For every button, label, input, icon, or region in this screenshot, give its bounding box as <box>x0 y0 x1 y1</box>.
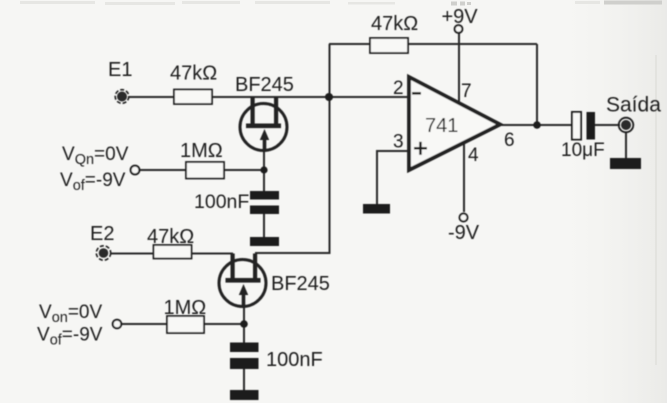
transistor Q2 BF245 <box>219 254 266 307</box>
+9V supply terminal <box>455 25 463 33</box>
control terminal Von/Vof (open circle) <box>113 320 122 329</box>
resistor R4 47kΩ <box>154 245 192 259</box>
output terminal Saída <box>619 118 634 133</box>
-9V supply terminal <box>460 214 468 222</box>
wire: C3 to output terminal <box>595 124 620 126</box>
node C junction dot (Q2 gate / R5 / C2) <box>240 320 248 328</box>
wire: node A to op-amp pin 2 <box>329 96 409 98</box>
ground below output terminal <box>610 158 641 169</box>
svg-text:2: 2 <box>393 78 404 99</box>
wire: R3 to gate node of Q1 <box>224 169 264 171</box>
wire: Von terminal to R5 <box>121 323 167 325</box>
svg-text:47kΩ: 47kΩ <box>371 13 418 35</box>
terminal E2 <box>96 246 110 260</box>
wire: R5 to gate node of Q2 <box>204 323 244 325</box>
wire: left vertical from top wire down to JFET2 source wire <box>255 44 330 253</box>
ground below C2 <box>230 390 259 400</box>
transistor Q1 BF245 <box>240 97 287 151</box>
wire: R1 to node A through JFET Q1 top <box>212 96 329 98</box>
op-amp U1 741 <box>409 77 500 170</box>
capacitor C1 100nF <box>250 191 279 214</box>
wire: feedback top horizontal <box>329 43 537 45</box>
svg-text:6: 6 <box>504 130 515 151</box>
resistor R2 47kΩ feedback <box>370 38 408 53</box>
svg-text:47kΩ: 47kΩ <box>147 226 194 248</box>
svg-text:-9V: -9V <box>448 222 480 244</box>
svg-text:47kΩ: 47kΩ <box>170 63 217 85</box>
svg-text:3: 3 <box>393 132 404 153</box>
svg-text:E1: E1 <box>108 59 132 81</box>
wire: C1 lower plate to ground <box>263 214 265 237</box>
wire: VQn terminal to R3 <box>139 169 186 171</box>
wire: E1 to R1 <box>128 96 174 98</box>
svg-text:1MΩ: 1MΩ <box>164 297 207 319</box>
ground below C1 <box>250 237 279 246</box>
faint cropped text remnants at top edge <box>20 1 600 5</box>
wire: +9V supply to op-amp pin 7 <box>458 33 460 104</box>
wire: C2 lower plate to ground <box>243 369 245 390</box>
svg-text:7: 7 <box>461 81 472 102</box>
svg-text:Vof=-9V: Vof=-9V <box>60 170 126 194</box>
capacitor C2 100nF <box>230 343 259 370</box>
wire: op-amp pin 3 to ground <box>377 151 409 204</box>
faint page edge line at right <box>655 55 657 365</box>
node D output junction dot <box>533 121 541 129</box>
resistor R3 1MΩ <box>186 162 224 179</box>
wire: feedback right vertical down to output node <box>536 44 538 125</box>
svg-text:VQn=0V: VQn=0V <box>62 144 129 168</box>
svg-text:4: 4 <box>468 145 479 166</box>
wire: output terminal to ground <box>625 132 627 158</box>
resistor R5 1MΩ <box>167 316 204 333</box>
wire: op-amp pin 4 to -9V supply <box>463 141 465 212</box>
control terminal VQn/Vof (open circle) <box>131 166 140 175</box>
svg-text:10μF: 10μF <box>561 140 605 161</box>
ground at op-amp pin 3 <box>363 204 390 214</box>
svg-text:1MΩ: 1MΩ <box>180 140 223 162</box>
capacitor C3 10µF polarized <box>572 112 595 140</box>
svg-text:Saída: Saída <box>606 94 661 117</box>
wire: Q1 gate down to node B and capacitor C1 <box>263 150 265 191</box>
svg-text:BF245: BF245 <box>235 74 294 96</box>
svg-text:Von=0V: Von=0V <box>39 302 102 326</box>
svg-text:741: 741 <box>425 115 458 137</box>
wire: Q2 gate down to node C and capacitor C2 <box>243 306 245 343</box>
node A junction dot <box>325 93 333 101</box>
svg-text:E2: E2 <box>90 223 114 245</box>
resistor R1 47kΩ <box>174 90 212 105</box>
node B junction dot (Q1 gate / R3 / C1) <box>260 166 267 173</box>
wire: E2 to R4 <box>111 253 154 255</box>
svg-text:+9V: +9V <box>442 6 479 28</box>
svg-text:100nF: 100nF <box>194 191 249 213</box>
wire: op-amp output pin 6 to capacitor C3 <box>499 124 572 126</box>
wire: R4 to JFET Q2 drain <box>192 253 234 255</box>
svg-text:Vof=-9V: Vof=-9V <box>37 325 103 349</box>
terminal E1 <box>115 90 129 104</box>
svg-text:100nF: 100nF <box>266 349 323 371</box>
svg-text:BF245: BF245 <box>271 273 330 295</box>
